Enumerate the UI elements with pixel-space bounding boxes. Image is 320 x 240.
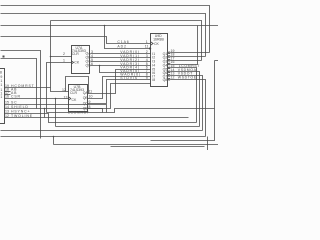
wire left loop B <box>1 59 37 109</box>
wire QB1 / VADR1 to pin 3 <box>91 54 151 58</box>
net label AD2 <box>117 45 148 49</box>
wire bottom bus B6 <box>1 130 203 132</box>
svg-text:CK: CK <box>72 98 78 102</box>
svg-text:13: 13 <box>5 110 9 114</box>
svg-text:SC: SC <box>11 100 18 104</box>
svg-text:CLR: CLR <box>72 52 79 56</box>
svg-text:CSR: CSR <box>11 95 21 99</box>
svg-text:AD2: AD2 <box>117 45 126 49</box>
svg-text:2: 2 <box>63 52 65 56</box>
wire left loop A <box>1 51 41 139</box>
wire top bus T1 <box>1 6 210 53</box>
wire top bus T5 to U9D CK pin 1 <box>1 37 151 44</box>
svg-text:12: 12 <box>171 76 175 80</box>
node 12 TWOLINE <box>5 114 189 118</box>
svg-text:10: 10 <box>89 94 93 98</box>
node 17 AB <box>5 91 18 95</box>
node pin2 <box>63 52 65 56</box>
node pin12 <box>62 88 66 92</box>
wire Q6 pin14 VSDMOA <box>168 68 199 127</box>
svg-text:6: 6 <box>91 62 93 66</box>
junction dots <box>44 25 106 138</box>
svg-text:CK: CK <box>154 42 160 46</box>
wire Q8 pin12 WSDTOE <box>168 76 205 137</box>
wire vert to U7B CLR pin 12 <box>51 21 69 92</box>
wire bottom bus B7 <box>1 136 206 138</box>
wire bottom bus B5 <box>56 126 200 128</box>
svg-text:I8: I8 <box>152 78 155 82</box>
wire Q5 pin15 LCOMRST <box>168 64 200 122</box>
wire QD1 branch to pin 7 <box>100 66 151 74</box>
wire Q2 pin18 <box>168 53 205 58</box>
node mark <box>3 56 5 58</box>
svg-text:8: 8 <box>0 71 2 75</box>
svg-text:Q8: Q8 <box>163 78 168 82</box>
svg-text:6: 6 <box>146 66 148 70</box>
svg-text:11: 11 <box>89 89 93 93</box>
svg-text:STDVIS: STDVIS <box>120 76 138 80</box>
wire QA2 riser to pin 6 <box>88 66 151 94</box>
svg-text:HSYNC+: HSYNC+ <box>11 110 30 114</box>
wire bottom bus B8 <box>1 137 219 145</box>
wire Q7 pin13 VSDOT <box>168 72 202 131</box>
svg-text:1: 1 <box>0 83 2 87</box>
wire OE pin11 feed from T4 <box>105 26 151 49</box>
svg-text:VADR(4): VADR(4) <box>120 66 140 70</box>
net label on mid bus <box>68 111 90 115</box>
node pin13 <box>64 95 68 99</box>
wire QD1 / VADR3 to pin 5 <box>91 62 151 66</box>
counter U7A <box>72 46 92 74</box>
svg-text:16R8B: 16R8B <box>153 37 164 41</box>
svg-text:SHIELD: SHIELD <box>11 105 29 109</box>
wire U7A CK feed riser <box>47 63 72 113</box>
net label C1A6 <box>117 40 147 44</box>
wire right mid vert to pin17 stub <box>151 61 215 141</box>
wire top bus T4 <box>1 25 219 27</box>
wire QA1 / VADR0 to pin 2 <box>91 50 151 54</box>
node 16 CSR to U7B CK <box>5 95 69 99</box>
wire top bus T3 <box>51 21 202 61</box>
wire QD2 riser to bottom input <box>88 84 151 110</box>
wire csr-sc drop <box>55 99 57 127</box>
wire QC2 riser to pin 9 <box>88 76 151 104</box>
svg-text:14: 14 <box>5 105 9 109</box>
svg-text:1: 1 <box>63 59 65 63</box>
left box connector <box>0 69 5 124</box>
node 18 AB <box>5 88 18 92</box>
wire U7B QA feedback loop to CLR <box>66 77 89 94</box>
svg-text:CLR: CLR <box>70 91 77 95</box>
wire top bus T2 <box>1 14 206 57</box>
node 19 HCOMRST <box>5 84 51 88</box>
svg-text:11: 11 <box>145 45 149 49</box>
wire Q3 pin17 <box>168 56 201 61</box>
svg-text:1: 1 <box>0 95 2 99</box>
svg-text:WSDTOE: WSDTOE <box>178 76 197 80</box>
svg-text:TWOLINE: TWOLINE <box>11 114 33 118</box>
wire shield-twoline drop <box>44 109 46 118</box>
wire U7A CLR feed <box>51 56 72 58</box>
node 13 HSYNC+ <box>5 110 197 123</box>
node box digits <box>0 75 2 99</box>
svg-text:9: 9 <box>89 100 91 104</box>
svg-text:13: 13 <box>64 95 68 99</box>
wire bottom bus B9 <box>111 146 205 148</box>
node 14 SHIELD <box>5 105 103 113</box>
svg-text:1: 1 <box>146 40 148 44</box>
wire right edge vert <box>207 137 209 151</box>
wire Q4 pin16 <box>168 26 197 65</box>
node pin1 <box>63 59 65 63</box>
wire pin17 stub <box>215 60 219 62</box>
counter U7B <box>69 85 89 112</box>
svg-text:C1A6: C1A6 <box>117 40 129 44</box>
svg-text:16: 16 <box>5 95 9 99</box>
svg-text:12: 12 <box>5 114 9 118</box>
wire QC1 / VADR2 to pin 4 <box>91 58 151 62</box>
svg-text:9: 9 <box>146 76 148 80</box>
wire QB2 riser to pin 8 <box>88 73 151 99</box>
svg-text:CK: CK <box>74 60 80 64</box>
svg-text:15: 15 <box>5 100 9 104</box>
wire Q1 pin19 <box>168 49 209 54</box>
node 15 SC <box>5 100 107 112</box>
svg-text:8: 8 <box>89 105 91 109</box>
wire mid bus jog <box>47 109 215 113</box>
PAL U9D <box>149 34 167 87</box>
